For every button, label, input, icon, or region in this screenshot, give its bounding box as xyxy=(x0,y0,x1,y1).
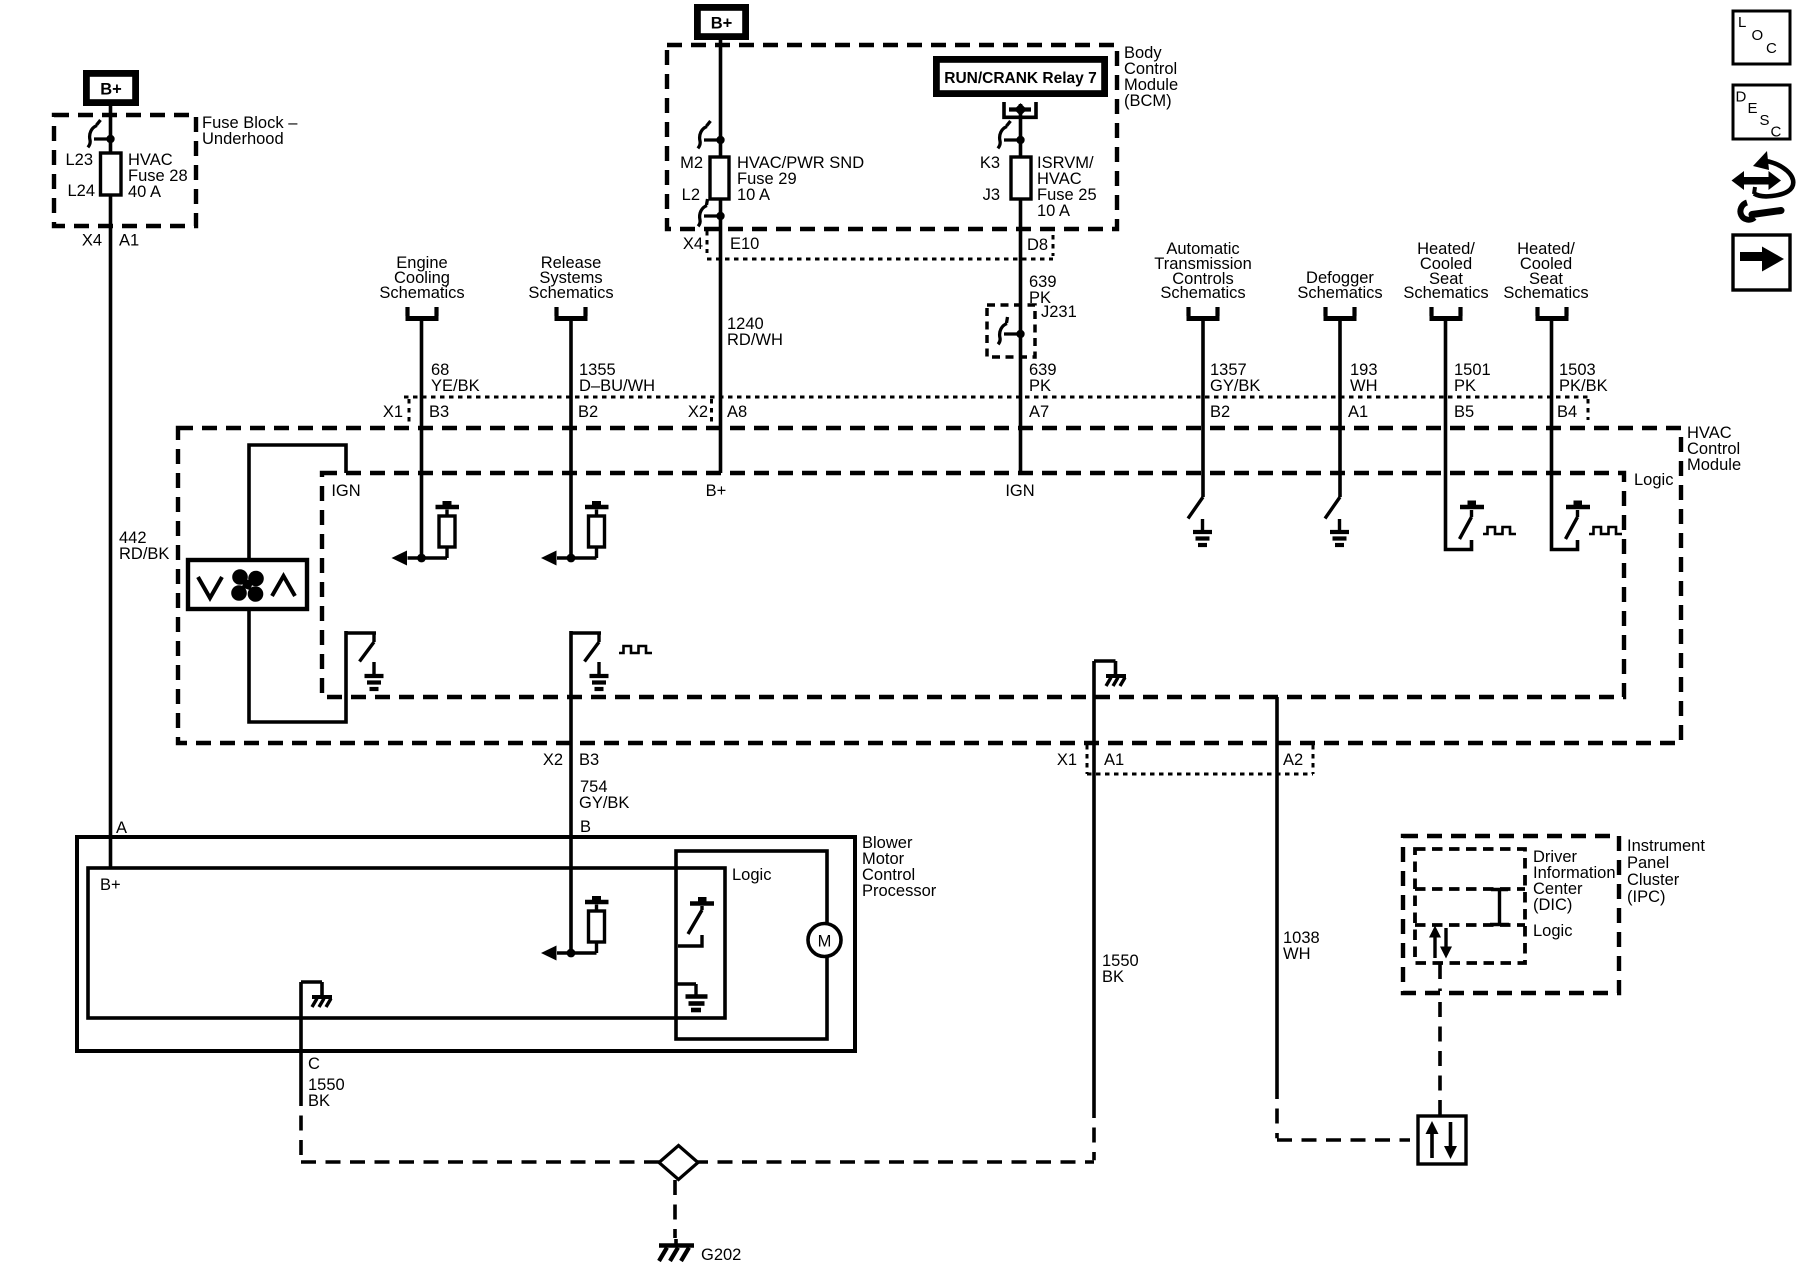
svg-text:IGN: IGN xyxy=(331,482,360,500)
svg-text:B5: B5 xyxy=(1454,403,1474,421)
svg-text:A8: A8 xyxy=(727,403,747,421)
svg-text:K3: K3 xyxy=(980,154,1000,172)
svg-text:A: A xyxy=(116,819,127,837)
svg-text:10 A: 10 A xyxy=(1037,202,1070,220)
svg-text:WH: WH xyxy=(1283,945,1311,963)
svg-text:D8: D8 xyxy=(1027,236,1048,254)
svg-text:L: L xyxy=(1738,14,1746,31)
svg-text:L23: L23 xyxy=(65,151,93,169)
svg-text:B+: B+ xyxy=(706,482,727,500)
svg-text:(IPC): (IPC) xyxy=(1627,888,1666,906)
svg-text:Schematics: Schematics xyxy=(1503,284,1588,302)
svg-text:O: O xyxy=(1752,27,1764,44)
svg-text:X4: X4 xyxy=(82,232,102,250)
svg-text:(BCM): (BCM) xyxy=(1124,92,1172,110)
svg-text:BK: BK xyxy=(1102,968,1124,986)
svg-text:D–BU/WH: D–BU/WH xyxy=(579,377,655,395)
svg-text:X1: X1 xyxy=(1057,751,1077,769)
svg-text:YE/BK: YE/BK xyxy=(431,377,480,395)
svg-text:PK: PK xyxy=(1029,377,1051,395)
svg-text:M2: M2 xyxy=(680,154,703,172)
svg-text:Logic: Logic xyxy=(1634,471,1673,489)
svg-text:J3: J3 xyxy=(983,186,1000,204)
svg-text:Schematics: Schematics xyxy=(528,284,613,302)
svg-text:A1: A1 xyxy=(1104,751,1124,769)
svg-text:X4: X4 xyxy=(683,235,703,253)
svg-text:BK: BK xyxy=(308,1092,330,1110)
svg-text:IGN: IGN xyxy=(1005,482,1034,500)
svg-text:X1: X1 xyxy=(383,403,403,421)
svg-text:Cluster: Cluster xyxy=(1627,871,1680,889)
svg-text:B+: B+ xyxy=(100,876,121,894)
svg-text:B2: B2 xyxy=(1210,403,1230,421)
svg-text:10 A: 10 A xyxy=(737,186,770,204)
svg-text:RD/WH: RD/WH xyxy=(727,331,783,349)
svg-text:Underhood: Underhood xyxy=(202,130,284,148)
svg-text:X2: X2 xyxy=(543,751,563,769)
svg-text:Logic: Logic xyxy=(732,866,771,884)
svg-text:B3: B3 xyxy=(579,751,599,769)
svg-text:B+: B+ xyxy=(711,15,733,33)
svg-text:L2: L2 xyxy=(682,186,700,204)
svg-text:A1: A1 xyxy=(119,232,139,250)
svg-text:E: E xyxy=(1748,100,1758,117)
svg-text:C: C xyxy=(1766,40,1777,57)
svg-text:X2: X2 xyxy=(688,403,708,421)
svg-text:WH: WH xyxy=(1350,377,1378,395)
svg-text:B: B xyxy=(580,818,591,836)
svg-text:C: C xyxy=(1771,124,1782,141)
svg-text:L24: L24 xyxy=(67,182,95,200)
svg-text:D: D xyxy=(1736,89,1747,106)
svg-text:Schematics: Schematics xyxy=(379,284,464,302)
svg-text:B+: B+ xyxy=(100,81,122,99)
svg-text:40 A: 40 A xyxy=(128,183,161,201)
svg-text:C: C xyxy=(308,1055,320,1073)
svg-text:GY/BK: GY/BK xyxy=(579,794,629,812)
svg-text:Instrument: Instrument xyxy=(1627,837,1705,855)
svg-text:S: S xyxy=(1760,112,1770,129)
svg-text:Logic: Logic xyxy=(1533,922,1572,940)
svg-text:Module: Module xyxy=(1687,456,1741,474)
svg-text:J231: J231 xyxy=(1041,303,1077,321)
svg-text:A7: A7 xyxy=(1029,403,1049,421)
svg-text:PK/BK: PK/BK xyxy=(1559,377,1608,395)
svg-text:RUN/CRANK Relay 7: RUN/CRANK Relay 7 xyxy=(944,70,1096,87)
svg-text:Schematics: Schematics xyxy=(1160,284,1245,302)
svg-text:G202: G202 xyxy=(701,1246,741,1264)
svg-text:Panel: Panel xyxy=(1627,854,1669,872)
svg-text:GY/BK: GY/BK xyxy=(1210,377,1260,395)
svg-text:B4: B4 xyxy=(1557,403,1577,421)
svg-text:M: M xyxy=(818,933,832,951)
svg-text:E10: E10 xyxy=(730,235,759,253)
svg-text:PK: PK xyxy=(1454,377,1476,395)
svg-text:Schematics: Schematics xyxy=(1297,284,1382,302)
svg-text:B2: B2 xyxy=(578,403,598,421)
svg-text:A2: A2 xyxy=(1283,751,1303,769)
svg-text:A1: A1 xyxy=(1348,403,1368,421)
svg-text:Processor: Processor xyxy=(862,882,937,900)
svg-text:RD/BK: RD/BK xyxy=(119,545,169,563)
svg-text:B3: B3 xyxy=(429,403,449,421)
svg-text:Schematics: Schematics xyxy=(1403,284,1488,302)
svg-text:(DIC): (DIC) xyxy=(1533,896,1572,914)
